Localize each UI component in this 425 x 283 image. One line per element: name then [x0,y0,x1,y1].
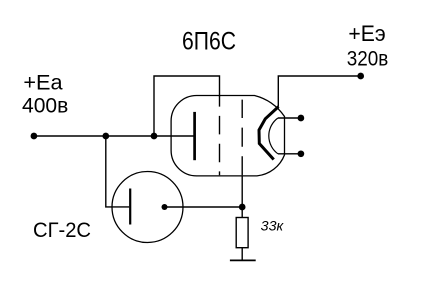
svg-text:33к: 33к [261,219,284,234]
wire to СГ-2С anode [106,136,129,207]
node heater terminal bottom [298,150,305,157]
tube V1 anode (bold arc) [259,107,279,160]
node +Eэ terminal [357,73,364,80]
tube V1 grid g1 (dashed) [219,96,221,175]
tube V2 cathode dot [162,204,168,210]
node junction g2/resistor [239,204,246,211]
tube V2 envelope (circle) [112,172,183,243]
svg-text:+Еа: +Еа [23,72,63,95]
wire heater lead bottom [278,153,301,155]
wire grid g1 loop [154,76,220,136]
ground [230,259,256,261]
svg-text:+Еэ: +Еэ [348,21,385,46]
wire +Ea bus [34,135,194,137]
wire +Eэ to anode [278,76,360,107]
wire heater lead top [278,117,301,119]
tube V1 cathode bar [193,112,196,160]
svg-text:400в: 400в [22,94,68,117]
node +Ea terminal [31,133,38,140]
node junction to СГ-2С anode [102,133,109,140]
tube V1 cathode arc [269,118,278,154]
svg-text:6П6С: 6П6С [182,29,236,56]
svg-text:320в: 320в [347,46,389,70]
svg-text:СГ-2С: СГ-2С [33,218,91,242]
node junction to grid wire [151,133,158,140]
resistor R1 33к [236,218,248,248]
tube V2 anode bar [129,189,131,225]
wire resistor to ground [241,248,243,261]
wire СГ-2С cathode to junction [165,206,243,208]
tube V1 envelope [171,96,284,176]
wire g2 down to resistor [241,175,243,217]
tube V1 grid g2 (dashed) [241,100,243,176]
node heater terminal top [298,115,305,122]
